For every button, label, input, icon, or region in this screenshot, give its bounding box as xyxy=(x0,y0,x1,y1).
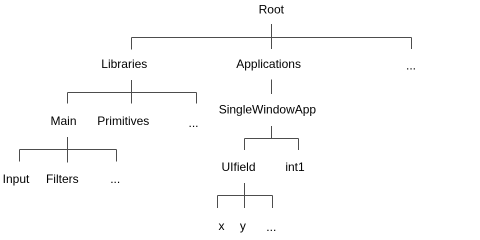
wire Applications stem to SingleWindowApp xyxy=(271,80,273,95)
svg-text:...: ... xyxy=(406,59,416,73)
wire drop to UIfield xyxy=(244,139,246,151)
svg-text:int1: int1 xyxy=(285,160,305,174)
wire drop to ellipsis under Main xyxy=(116,150,118,162)
wire drop to ellipsis under Libraries xyxy=(196,93,198,104)
wire drop to Main xyxy=(67,93,69,104)
svg-text:...: ... xyxy=(266,220,276,234)
wire level-1 horizontal rail xyxy=(132,37,412,39)
wire UIfield horizontal rail xyxy=(218,195,273,197)
wire drop to Libraries xyxy=(131,38,133,50)
wire Libraries stem (vertical through rail to Primitives) xyxy=(131,80,133,104)
svg-text:Root: Root xyxy=(259,3,285,17)
svg-text:Input: Input xyxy=(3,172,30,186)
wire drop to ellipsis under UIfield xyxy=(272,196,274,209)
svg-text:...: ... xyxy=(110,172,120,186)
wire UIfield stem (vertical through rail to y) xyxy=(244,183,246,208)
wire drop to Input xyxy=(19,150,21,162)
svg-text:Filters: Filters xyxy=(46,172,79,186)
svg-text:Primitives: Primitives xyxy=(97,114,149,128)
wire drop to int1 xyxy=(298,139,300,151)
wire drop to ellipsis right xyxy=(411,38,413,50)
wire drop to x xyxy=(217,196,219,209)
wire Root stem (vertical, passes through level-1 rail down to Applications) xyxy=(271,24,273,49)
wire Main stem (vertical through rail) xyxy=(67,137,69,163)
svg-text:Main: Main xyxy=(50,114,76,128)
wire Libraries horizontal rail xyxy=(68,92,197,94)
svg-text:...: ... xyxy=(188,116,198,130)
svg-text:x: x xyxy=(219,219,225,233)
wire SingleWindowApp stem xyxy=(271,126,273,139)
svg-text:y: y xyxy=(240,219,246,233)
wire Main horizontal rail xyxy=(20,149,117,151)
svg-text:Applications: Applications xyxy=(236,57,301,71)
wire SingleWindowApp horizontal rail xyxy=(245,138,299,140)
svg-text:SingleWindowApp: SingleWindowApp xyxy=(219,103,317,117)
svg-text:UIfield: UIfield xyxy=(221,160,255,174)
svg-text:Libraries: Libraries xyxy=(101,57,147,71)
